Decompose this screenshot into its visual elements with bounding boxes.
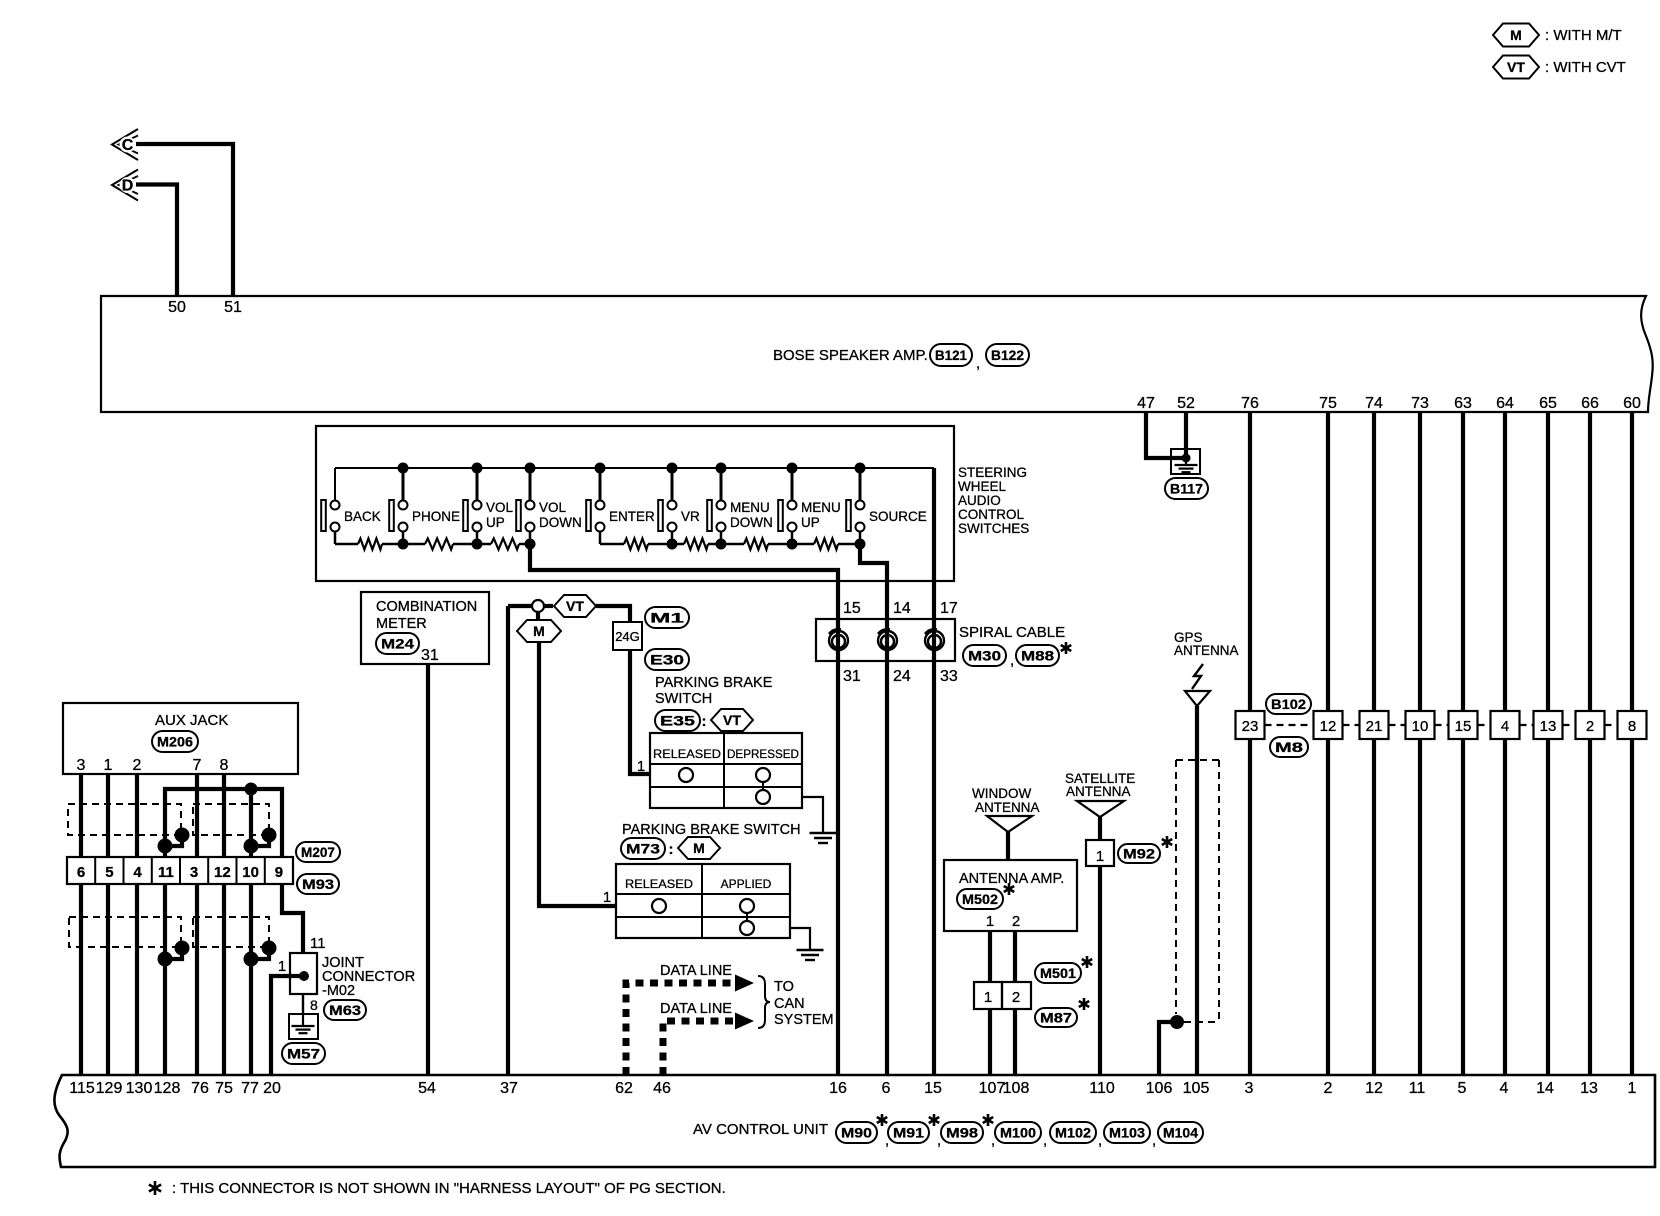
svg-text:VT: VT (723, 712, 741, 728)
pin 15 of spiral cable (843, 600, 861, 617)
svg-text:M102: M102 (1055, 1125, 1091, 1141)
switch VOL DOWN (516, 463, 582, 545)
pin 105 of AV control unit (1183, 1080, 1210, 1097)
svg-text:STEERING: STEERING (958, 465, 1027, 480)
data line wire to CAN (pin 46) (663, 1021, 736, 1075)
label window antenna (972, 786, 1040, 815)
pin 130 of AV control unit (126, 1080, 153, 1097)
wire gps antenna to AV pin 105 (1195, 706, 1199, 1075)
pin 129 of AV control unit (96, 1080, 123, 1097)
svg-text:: THIS CONNECTOR IS NOT SHOWN: : THIS CONNECTOR IS NOT SHOWN IN "HARNES… (172, 1180, 726, 1197)
asterisk for M92 (1162, 836, 1172, 848)
svg-text:1: 1 (1096, 848, 1104, 865)
switch MENU DOWN (707, 463, 773, 545)
svg-text:54: 54 (418, 1080, 436, 1097)
svg-text:B122: B122 (991, 347, 1024, 363)
wire M207 pin 4 to AV pin 130 (135, 884, 139, 1075)
pin 65 of BOSE amp (1539, 395, 1557, 412)
variant symbol VT on E35 feed (554, 595, 596, 617)
svg-text:,: , (1152, 1132, 1156, 1149)
svg-text:2: 2 (1324, 1080, 1333, 1097)
data line wire to CAN (pin 62) (626, 983, 736, 1075)
resistor between PHONE and VOL UP (425, 539, 453, 550)
dashed link between boxes 13 and 2 (1563, 724, 1576, 726)
svg-text:M92: M92 (1123, 846, 1155, 862)
wire satellite antenna to connector M92 (1098, 817, 1102, 840)
svg-text:1: 1 (1628, 1080, 1637, 1097)
pin 1 of antenna amp (986, 913, 994, 930)
svg-text:75: 75 (215, 1080, 233, 1097)
pin 33 of spiral cable (940, 668, 958, 685)
wire connector box 12 to AV pin 2 (1326, 739, 1330, 1075)
wire M73 applied contact to ground (790, 928, 810, 950)
satellite antenna symbol (1077, 801, 1124, 817)
comma after B121 (976, 355, 980, 372)
wire M207 pin 12 to AV pin 75 (222, 884, 226, 1075)
dashed link between boxes 2 and 8 (1605, 724, 1618, 726)
pin 8 of aux jack (220, 757, 229, 774)
svg-text:51: 51 (224, 299, 242, 316)
wire VT hexagon to connector 24G (596, 606, 630, 622)
pin 128 of AV control unit (154, 1080, 181, 1097)
wire 24G to parking brake switch E35 (630, 650, 650, 774)
pin 12 of AV control unit (1365, 1080, 1383, 1097)
switch VR (658, 463, 700, 545)
wire BOSE to connector box 23 (1248, 412, 1252, 711)
svg-text:M57: M57 (287, 1046, 320, 1062)
svg-text:9: 9 (275, 864, 283, 881)
connector label M92 (1118, 844, 1160, 863)
pin 5 of AV control unit (1458, 1080, 1467, 1097)
svg-text:-M02: -M02 (322, 983, 355, 999)
svg-text:AV CONTROL UNIT: AV CONTROL UNIT (693, 1121, 828, 1138)
wire BOSE to connector box 10 (1418, 412, 1422, 711)
connector label M102 (1050, 1122, 1102, 1149)
spiral cable box M30/M88 (816, 619, 955, 661)
svg-text:ANTENNA AMP.: ANTENNA AMP. (959, 871, 1064, 887)
pin 54 of AV control unit (418, 1080, 436, 1097)
pin 14 of spiral cable (893, 600, 911, 617)
junction inside joint connector (299, 971, 309, 981)
svg-text:15: 15 (924, 1080, 942, 1097)
svg-text:110: 110 (1089, 1080, 1115, 1097)
svg-text:SWITCHES: SWITCHES (958, 521, 1029, 536)
wire E35 depressed contact to ground (802, 797, 823, 833)
connector label B117 (1165, 478, 1208, 499)
svg-text:E30: E30 (650, 652, 684, 668)
svg-text:,: , (1098, 1132, 1102, 1149)
svg-text:130: 130 (126, 1080, 153, 1097)
connector label M30 (963, 645, 1006, 666)
svg-text:107: 107 (979, 1080, 1006, 1097)
combination meter box M24 (361, 592, 489, 664)
wire spiral pin 31 to AV pin 16 (836, 619, 840, 1075)
svg-text:11: 11 (1409, 1080, 1426, 1097)
svg-text:,: , (976, 355, 980, 372)
bottom bus ENTER-SOURCE segment (600, 543, 860, 546)
asterisk for M88 (1061, 642, 1071, 654)
wire connector box 23 to AV pin 3 (1248, 739, 1252, 1075)
svg-text:13: 13 (1540, 718, 1557, 735)
svg-text:UP: UP (486, 515, 505, 530)
pin 74 of BOSE amp (1365, 395, 1383, 412)
svg-text:8: 8 (310, 997, 318, 1013)
svg-text:ENTER: ENTER (609, 509, 655, 524)
svg-text:23: 23 (1242, 718, 1259, 735)
svg-text:1: 1 (637, 758, 645, 775)
pin 1 of E35 (637, 758, 645, 775)
colon after M73 (669, 841, 674, 858)
ground body B117 (1171, 449, 1200, 474)
svg-text:M501: M501 (1040, 965, 1076, 981)
wire M hexagon to parking brake switch M73 (539, 642, 616, 906)
svg-text:AUX JACK: AUX JACK (155, 712, 228, 729)
inline connector box 10 (1406, 711, 1435, 739)
pin 75 of BOSE amp (1319, 395, 1337, 412)
dashed link between boxes 12 and 21 (1343, 724, 1360, 726)
svg-text:17: 17 (940, 600, 958, 617)
label to CAN system (774, 979, 834, 1028)
wire BOSE to connector box 8 (1630, 412, 1634, 711)
connector label M87 (1035, 1008, 1077, 1027)
svg-text:M1: M1 (650, 610, 684, 626)
svg-text:DATA LINE: DATA LINE (660, 1001, 732, 1017)
svg-text:129: 129 (96, 1080, 123, 1097)
svg-text:105: 105 (1183, 1080, 1210, 1097)
pin 110 of AV control unit (1089, 1080, 1115, 1097)
pin 1 of joint connector (278, 958, 286, 975)
wire connector box 13 to AV pin 14 (1546, 739, 1550, 1075)
variant symbol VT for E35 (711, 709, 753, 731)
pin 75 of AV control unit (215, 1080, 233, 1097)
connector label M90 (836, 1114, 889, 1149)
connector label B122 (986, 344, 1029, 366)
svg-text:M100: M100 (1000, 1125, 1036, 1141)
svg-text:14: 14 (893, 600, 911, 617)
pin 4 of AV control unit (1500, 1080, 1509, 1097)
off-page arrow C (112, 129, 138, 160)
junction MENU DOWN bottom (716, 539, 727, 550)
svg-text:WINDOW: WINDOW (972, 786, 1031, 801)
wire connector box 21 to AV pin 12 (1372, 739, 1376, 1075)
resistor between VOL UP and VOL DOWN (491, 539, 519, 550)
switch MENU UP (778, 463, 841, 545)
wire SOURCE net to spiral cable pin 14 (860, 544, 887, 619)
state table of E35 (650, 733, 802, 808)
svg-text:MENU: MENU (801, 500, 841, 515)
svg-text:108: 108 (1003, 1080, 1030, 1097)
svg-text:M207: M207 (301, 844, 335, 860)
svg-text:5: 5 (1458, 1080, 1467, 1097)
svg-text:UP: UP (801, 515, 820, 530)
wire shield bus to M207 pin 10 (249, 789, 253, 857)
svg-text:2: 2 (1012, 913, 1020, 930)
svg-text:77: 77 (241, 1080, 259, 1097)
svg-text:: WITH CVT: : WITH CVT (1545, 59, 1626, 76)
wire window antenna to antenna amp (1006, 832, 1010, 860)
junction VOL UP bottom (472, 539, 483, 550)
svg-text:M30: M30 (968, 648, 1001, 664)
label steering wheel audio control switches (958, 465, 1029, 536)
svg-text:24G: 24G (615, 629, 640, 644)
connector label M206 (152, 731, 198, 752)
connector label M88 (1016, 645, 1059, 666)
svg-text:47: 47 (1137, 395, 1155, 412)
wire M207 pin 9 to joint connector pin 11 (282, 884, 303, 953)
inline connector box 4 (1491, 711, 1520, 739)
svg-text:APPLIED: APPLIED (721, 877, 772, 891)
svg-text:SWITCH: SWITCH (655, 691, 712, 707)
svg-text:66: 66 (1581, 395, 1599, 412)
wire connector box 8 to AV pin 1 (1630, 739, 1634, 1075)
svg-text:METER: METER (376, 616, 427, 632)
svg-text:M91: M91 (893, 1125, 924, 1141)
ground of E35 (810, 833, 837, 843)
connector label B121 (930, 344, 972, 366)
footnote text (172, 1180, 726, 1197)
svg-text:BACK: BACK (344, 509, 381, 524)
pin 46 of AV control unit (653, 1080, 671, 1097)
svg-text:M88: M88 (1021, 648, 1054, 664)
connector label M91 (888, 1114, 941, 1149)
pin 51 of B121 (224, 299, 242, 316)
pin 66 of BOSE amp (1581, 395, 1599, 412)
svg-text:33: 33 (940, 668, 958, 685)
svg-text:128: 128 (154, 1080, 181, 1097)
svg-text:16: 16 (829, 1080, 847, 1097)
ground body M57 (289, 1014, 318, 1039)
svg-text:15: 15 (1455, 718, 1472, 735)
svg-text:50: 50 (168, 299, 186, 316)
wire BOSE to connector box 15 (1461, 412, 1465, 711)
pin 20 of AV control unit (263, 1080, 281, 1097)
inline connector box 15 (1449, 711, 1478, 739)
pin 11 of AV control unit (1409, 1080, 1426, 1097)
svg-text:E35: E35 (660, 713, 695, 729)
arrowhead data line 1 (735, 975, 754, 992)
wire aux pin 3 to M207 pin 6 (79, 774, 83, 857)
svg-text:62: 62 (615, 1080, 633, 1097)
pin 16 of AV control unit (829, 1080, 847, 1097)
svg-text:10: 10 (242, 864, 259, 881)
svg-text:PHONE: PHONE (412, 509, 460, 524)
inline connector box 21 (1360, 711, 1389, 739)
svg-text:M24: M24 (381, 636, 414, 652)
svg-text:VR: VR (681, 509, 700, 524)
junction SOURCE bottom (855, 539, 866, 550)
svg-text:4: 4 (1501, 718, 1509, 735)
svg-text:76: 76 (191, 1080, 209, 1097)
svg-text:3: 3 (1245, 1080, 1254, 1097)
pin 13 of AV control unit (1580, 1080, 1598, 1097)
svg-text:B117: B117 (1170, 481, 1203, 497)
shield of aux cable (upper left) (68, 804, 181, 835)
pin 3 of aux jack (77, 757, 86, 774)
svg-text:24: 24 (893, 668, 911, 685)
pin 14 of AV control unit (1536, 1080, 1554, 1097)
pin 1 of AV control unit (1628, 1080, 1637, 1097)
svg-text:8: 8 (220, 757, 229, 774)
pin 15 of AV control unit (924, 1080, 942, 1097)
svg-text:SPIRAL CABLE: SPIRAL CABLE (959, 624, 1065, 641)
variant symbol M on M73 feed (517, 612, 561, 642)
pin 2 of antenna amp (1012, 913, 1020, 930)
pin 1 of M73 (603, 889, 611, 906)
wire BOSE to connector box 4 (1503, 412, 1507, 711)
svg-text:,: , (1010, 652, 1014, 669)
asterisk for M501 (1082, 956, 1092, 968)
inline connector box 13 (1534, 711, 1563, 739)
label satellite antenna (1065, 771, 1135, 799)
off-page arrow D (112, 170, 138, 201)
svg-text:M73: M73 (626, 841, 660, 857)
svg-text:74: 74 (1365, 395, 1383, 412)
dashed link between boxes 23 and 12 (1265, 724, 1314, 726)
top bus wire of switch ladder (335, 467, 934, 469)
pin 3 of AV control unit (1245, 1080, 1254, 1097)
svg-text:52: 52 (1177, 395, 1195, 412)
pin 115 of AV control unit (69, 1080, 95, 1097)
ground of M73 (797, 950, 824, 960)
pin 106 of AV control unit (1146, 1080, 1173, 1097)
svg-text:5: 5 (105, 864, 113, 881)
svg-text:75: 75 (1319, 395, 1337, 412)
shield drain connection upper right (244, 828, 277, 854)
legend symbol VT (with CVT) (1493, 56, 1626, 79)
connector 24G (M1/E30) (613, 622, 642, 650)
svg-text:PARKING BRAKE SWITCH: PARKING BRAKE SWITCH (622, 822, 801, 838)
shield drain connection upper left (158, 828, 190, 854)
wire M207 pin 10 to AV pin 77 (249, 884, 253, 1075)
connector label M24 (376, 633, 419, 654)
footnote asterisk (149, 1181, 161, 1195)
pin 76 of BOSE amp (1241, 395, 1259, 412)
dashed link between boxes 4 and 13 (1520, 724, 1534, 726)
wire aux pin 8 to M207 pin 12 (222, 774, 226, 857)
antenna amp box M502 (944, 860, 1077, 931)
wire aux pin 1 to M207 pin 5 (106, 774, 110, 857)
steering wheel audio control switches box (316, 426, 954, 581)
pin 47 of BOSE amp (1137, 395, 1155, 412)
svg-text:PARKING BRAKE: PARKING BRAKE (655, 675, 773, 691)
junction MENU UP bottom (787, 539, 798, 550)
svg-text:WHEEL: WHEEL (958, 479, 1007, 494)
svg-text:DOWN: DOWN (539, 515, 582, 530)
switch PHONE (389, 463, 460, 545)
pin 31 of combination meter (421, 647, 439, 664)
wire aux pin 7 to M207 pin 3 (195, 774, 199, 857)
svg-text:1: 1 (986, 913, 994, 930)
av control unit box (54, 1075, 1655, 1167)
svg-text:12: 12 (1320, 718, 1337, 735)
wire VOL DOWN net to spiral cable pin 15 (530, 544, 838, 619)
pin 73 of BOSE amp (1411, 395, 1429, 412)
pin 52 of BOSE amp (1177, 395, 1195, 412)
legend symbol M (with M/T) (1493, 24, 1622, 47)
wire M92 to AV pin 110 (1098, 866, 1102, 1075)
svg-text:M: M (533, 623, 545, 639)
svg-text:VT: VT (1507, 59, 1525, 75)
dashed link between boxes 21 and 10 (1389, 724, 1406, 726)
svg-text:M: M (693, 840, 705, 856)
wire arrow D to BOSE pin 50 (136, 185, 177, 297)
svg-text:7: 7 (193, 757, 202, 774)
svg-text:B121: B121 (935, 347, 967, 363)
svg-text:,: , (1043, 1132, 1047, 1149)
svg-text:1: 1 (603, 889, 611, 906)
pin 60 of BOSE amp (1623, 395, 1641, 412)
colon after E35 (702, 713, 707, 730)
switch VOL UP (463, 463, 513, 545)
svg-text:60: 60 (1623, 395, 1641, 412)
dashed link between boxes 10 and 15 (1435, 724, 1449, 726)
svg-text:10: 10 (1412, 718, 1429, 735)
svg-text:14: 14 (1536, 1080, 1554, 1097)
svg-text:21: 21 (1366, 718, 1383, 735)
connector label B102 (1266, 694, 1311, 714)
svg-text:C: C (122, 137, 134, 154)
svg-text:RELEASED: RELEASED (625, 877, 693, 891)
wire gps shield drain to AV pin 106 (1159, 1022, 1177, 1075)
svg-text:M206: M206 (157, 734, 193, 750)
wire M207 pin 3 to AV pin 76 (195, 884, 199, 1075)
svg-text:37: 37 (500, 1080, 518, 1097)
connector label M100 (995, 1122, 1047, 1149)
svg-text:46: 46 (653, 1080, 671, 1097)
svg-text:M93: M93 (302, 876, 334, 892)
pin 107 of AV control unit (979, 1080, 1006, 1097)
pin 24 of spiral cable (893, 668, 911, 685)
inline connector box 12 (1314, 711, 1343, 739)
gps antenna bolt symbol (1192, 664, 1203, 689)
svg-text:RELEASED: RELEASED (653, 747, 721, 761)
svg-text:4: 4 (1500, 1080, 1509, 1097)
svg-text:12: 12 (1365, 1080, 1383, 1097)
svg-text:B102: B102 (1271, 696, 1306, 712)
junction shield bus (245, 783, 258, 796)
wire BOSE to connector box 12 (1326, 412, 1330, 711)
connector label M57 (282, 1043, 325, 1064)
wire connector box 4 to AV pin 4 (1503, 739, 1507, 1075)
bottom bus BACK-VOLDOWN segment (335, 543, 530, 546)
svg-text:M104: M104 (1163, 1125, 1198, 1141)
pin 62 of AV control unit (615, 1080, 633, 1097)
svg-text:CAN: CAN (774, 996, 805, 1012)
connector strip M207/M93 (67, 857, 293, 884)
svg-text:106: 106 (1146, 1080, 1173, 1097)
wire BOSE pin 52 to ground (1184, 412, 1188, 458)
svg-text:1: 1 (104, 757, 113, 774)
svg-text::: : (669, 841, 674, 858)
svg-text:BOSE SPEAKER AMP.: BOSE SPEAKER AMP. (773, 347, 928, 364)
bose speaker amp box B121/B122 (101, 296, 1653, 412)
asterisk for M87 (1079, 998, 1089, 1010)
label av control unit (693, 1121, 828, 1138)
svg-text:2: 2 (1586, 718, 1594, 735)
connector label M63 (324, 1000, 366, 1020)
pin 50 of B121 (168, 299, 186, 316)
connector label M103 (1104, 1122, 1156, 1149)
svg-text:ANTENNA: ANTENNA (1066, 784, 1131, 799)
pin 64 of BOSE amp (1496, 395, 1514, 412)
spiral contact symbol at x=838 (829, 629, 848, 650)
shield of cable (lower right) (193, 917, 269, 947)
wire AV pin 37 branch riser (506, 606, 510, 1075)
connector label M98 (941, 1114, 995, 1149)
svg-text:VT: VT (566, 598, 584, 614)
aux jack box M206 (63, 703, 298, 774)
svg-text:11: 11 (158, 864, 174, 881)
